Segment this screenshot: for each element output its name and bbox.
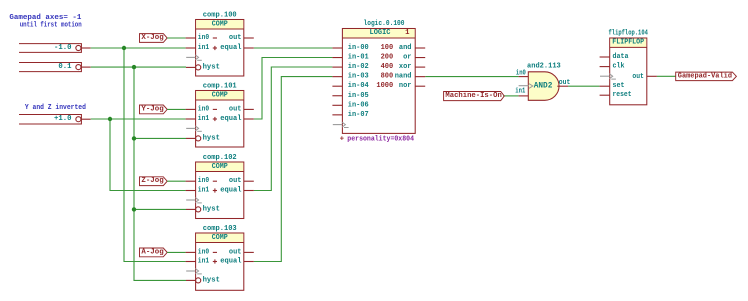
svg-text:equal: equal [220, 115, 242, 123]
wire branch to comp.102 hyst [134, 208, 186, 210]
flipflop.104 pin reset [600, 94, 610, 96]
logic gate block logic.0.100 [332, 20, 425, 143]
junction 0.1 [132, 65, 136, 69]
svg-text:comp.103: comp.103 [203, 225, 238, 233]
comp.100 pin hyst [186, 66, 196, 68]
global label Z-Jog [140, 177, 168, 186]
logic.0.100 pin in-02 [332, 66, 342, 68]
wire logic nand to and2 in0 [425, 76, 518, 78]
svg-text:COMP: COMP [212, 234, 229, 242]
comp.100 pin in1 [186, 47, 196, 49]
svg-text:set: set [613, 82, 625, 90]
svg-text:in1: in1 [198, 44, 210, 52]
svg-text:0.1: 0.1 [58, 63, 72, 71]
svg-text:flipflop.104: flipflop.104 [609, 30, 649, 38]
svg-text:out: out [229, 177, 242, 185]
svg-text:+1.0: +1.0 [54, 115, 72, 123]
and2.113 greater-equal mark [519, 85, 529, 87]
svg-text:200: 200 [381, 54, 394, 62]
svg-text:in1: in1 [198, 187, 210, 195]
svg-text:nor: nor [399, 82, 412, 90]
svg-text:in-01: in-01 [348, 54, 369, 62]
and2.113 pin in0 [519, 76, 529, 78]
flipflop.104 greater-equal mark [600, 74, 616, 79]
logic.0.100 pin in-00 [332, 47, 342, 49]
svg-text:FLIPFLOP: FLIPFLOP [612, 39, 644, 47]
svg-text:out: out [559, 79, 571, 87]
comp.101 greater-equal mark [186, 126, 202, 131]
wire Machine-Is-On to and2 in1 [503, 95, 518, 97]
wire Z-Jog to comp.102 in0 [167, 180, 185, 182]
comp.103 pin equal [244, 261, 254, 263]
comp.102 pin equal [244, 190, 254, 192]
wire flipflop out to Gamepad-Valid [657, 75, 676, 77]
comparator comp.102 [186, 154, 254, 218]
svg-text:clk: clk [613, 63, 626, 71]
svg-text:800: 800 [381, 73, 394, 81]
flipflop.104 pin clk [600, 66, 610, 68]
logic.0.100 pin in-05 [332, 95, 342, 97]
svg-text:in1: in1 [198, 258, 210, 266]
wire 0.1 to comp.100 hyst [91, 66, 186, 68]
svg-text:comp.102: comp.102 [203, 154, 237, 162]
svg-text:until first motion: until first motion [20, 22, 82, 30]
svg-text:out: out [632, 73, 644, 81]
svg-text:comp.100: comp.100 [203, 12, 237, 20]
and2.113 pin out [557, 85, 568, 87]
constant source 0.1 [19, 63, 91, 72]
logic.0.100 pin in-01 [332, 57, 342, 59]
svg-text:in-02: in-02 [348, 63, 369, 71]
wire +1.0 down to comp.102 in1 [110, 119, 186, 191]
svg-text:Gamepad-Valid: Gamepad-Valid [678, 72, 732, 80]
comp.100 pin out [244, 37, 254, 39]
svg-text:equal: equal [220, 258, 242, 266]
comp.103 pin hyst [186, 279, 196, 281]
svg-text:out: out [229, 248, 242, 256]
wire -1.0 to comp.100 in1 [91, 47, 186, 49]
and2.113 pin in1 [519, 95, 529, 97]
svg-text:personality=0x804: personality=0x804 [347, 136, 414, 144]
svg-text:hyst: hyst [203, 205, 220, 213]
comp.102 pin in0 [186, 180, 196, 182]
logic.0.100 greater-equal mark [333, 122, 349, 127]
svg-text:in0: in0 [198, 34, 209, 42]
svg-text:nand: nand [395, 73, 412, 81]
svg-text:in-07: in-07 [348, 111, 369, 119]
wire comp.100 equal to logic in-00 [254, 47, 333, 49]
svg-text:X-Jog: X-Jog [141, 34, 163, 42]
junction hyst branch 2 [132, 207, 136, 211]
comp.100 pin equal [244, 47, 254, 49]
global label A-Jog [140, 248, 168, 257]
wire A-Jog to comp.103 in0 [167, 251, 185, 253]
svg-text:equal: equal [220, 187, 242, 195]
comp.102 greater-equal mark [186, 198, 202, 203]
wire Y-Jog to comp.101 in0 [167, 108, 185, 110]
svg-text:logic.0.100: logic.0.100 [364, 20, 405, 28]
logic.0.100 pin in-04 [332, 85, 342, 87]
svg-text:100: 100 [381, 44, 394, 52]
junction +1.0 [108, 117, 112, 121]
comp.101 pin in0 [186, 108, 196, 110]
logic.0.100 pin in-07 [332, 114, 342, 116]
svg-text:hyst: hyst [203, 134, 220, 142]
svg-text:out: out [229, 34, 242, 42]
and gate and2.113 [515, 63, 570, 101]
flipflop.104 pin set [600, 85, 610, 87]
comp.101 pin in1 [186, 118, 196, 120]
wire comp.101 equal to logic in-01 [254, 58, 333, 120]
svg-text:Y and Z inverted: Y and Z inverted [25, 104, 86, 112]
svg-text:and2.113: and2.113 [527, 63, 561, 71]
wire comp.102 equal to logic in-02 [254, 67, 333, 191]
svg-text:1000: 1000 [376, 82, 393, 90]
svg-text:400: 400 [381, 63, 394, 71]
svg-text:hyst: hyst [203, 63, 220, 71]
junction hyst branch 1 [132, 136, 136, 140]
global label Gamepad-Valid [676, 72, 737, 81]
svg-text:in1: in1 [515, 87, 525, 95]
svg-text:1: 1 [405, 29, 410, 37]
svg-text:in-05: in-05 [348, 92, 369, 100]
constant source -1.0 [19, 44, 91, 53]
comp.100 greater-equal mark [186, 55, 202, 60]
comp.103 greater-equal mark [186, 269, 202, 274]
svg-text:xor: xor [399, 63, 412, 71]
svg-text:in-00: in-00 [348, 44, 369, 52]
comparator comp.103 [186, 225, 254, 290]
flipflop.104 pin out [647, 75, 657, 77]
wire X-Jog to comp.100 in0 [167, 37, 185, 39]
svg-text:COMP: COMP [212, 21, 229, 29]
wire comp.103 equal to logic in-03 [254, 77, 333, 262]
svg-text:AND2: AND2 [534, 82, 553, 91]
svg-text:+: + [340, 136, 345, 144]
comp.100 pin in0 [186, 37, 196, 39]
global label Machine-Is-On [444, 92, 505, 101]
comp.103 pin in0 [186, 251, 196, 253]
logic.0.100 pin in-06 [332, 104, 342, 106]
comp.101 pin equal [244, 118, 254, 120]
svg-text:out: out [229, 105, 242, 113]
comparator comp.101 [186, 83, 254, 147]
note: Y and Z inverted comment [25, 104, 86, 112]
comp.102 pin out [244, 180, 254, 182]
svg-text:in-04: in-04 [348, 82, 369, 90]
svg-text:equal: equal [220, 44, 242, 52]
svg-text:COMP: COMP [212, 92, 229, 100]
comp.103 pin in1 [186, 261, 196, 263]
global label X-Jog [140, 34, 168, 43]
junction -1.0 [122, 46, 126, 50]
wire -1.0 bus down to comp.103 in1 [124, 48, 186, 262]
constant source +1.0 [19, 115, 91, 125]
svg-text:A-Jog: A-Jog [141, 248, 163, 256]
note: Gamepad axes comment [9, 14, 82, 30]
svg-text:data: data [613, 53, 630, 61]
logic.0.100 pin in-03 [332, 76, 342, 78]
svg-text:comp.101: comp.101 [203, 83, 238, 91]
svg-text:in0: in0 [198, 105, 209, 113]
svg-text:in1: in1 [198, 115, 210, 123]
global label Y-Jog [140, 105, 168, 114]
comp.103 pin out [244, 251, 254, 253]
svg-text:in-03: in-03 [348, 73, 369, 81]
svg-text:in0: in0 [198, 177, 209, 185]
comp.101 pin out [244, 108, 254, 110]
flip-flop flipflop.104 [600, 30, 657, 105]
wire and2 out to flipflop set [568, 85, 600, 87]
svg-text:-1.0: -1.0 [54, 44, 72, 52]
svg-text:LOGIC: LOGIC [370, 29, 392, 37]
comparator comp.100 [186, 12, 254, 76]
svg-text:Y-Jog: Y-Jog [141, 105, 163, 113]
flipflop.104 pin data [600, 56, 610, 58]
svg-text:in0: in0 [516, 69, 526, 77]
wire 0.1 bus down to comp.103 hyst [134, 67, 186, 280]
comp.101 pin hyst [186, 137, 196, 139]
svg-text:reset: reset [613, 91, 632, 99]
svg-text:in-06: in-06 [348, 101, 369, 109]
svg-text:in0: in0 [198, 248, 209, 256]
wire +1.0 to comp.101 in1 [91, 118, 186, 120]
svg-text:Machine-Is-On: Machine-Is-On [445, 92, 501, 100]
svg-text:Z-Jog: Z-Jog [141, 177, 163, 185]
wire branch to comp.101 hyst [134, 137, 186, 139]
comp.102 pin hyst [186, 208, 196, 210]
svg-text:or: or [403, 54, 411, 62]
svg-text:and: and [399, 44, 412, 52]
svg-text:hyst: hyst [203, 276, 220, 284]
comp.102 pin in1 [186, 190, 196, 192]
svg-text:COMP: COMP [212, 163, 229, 171]
